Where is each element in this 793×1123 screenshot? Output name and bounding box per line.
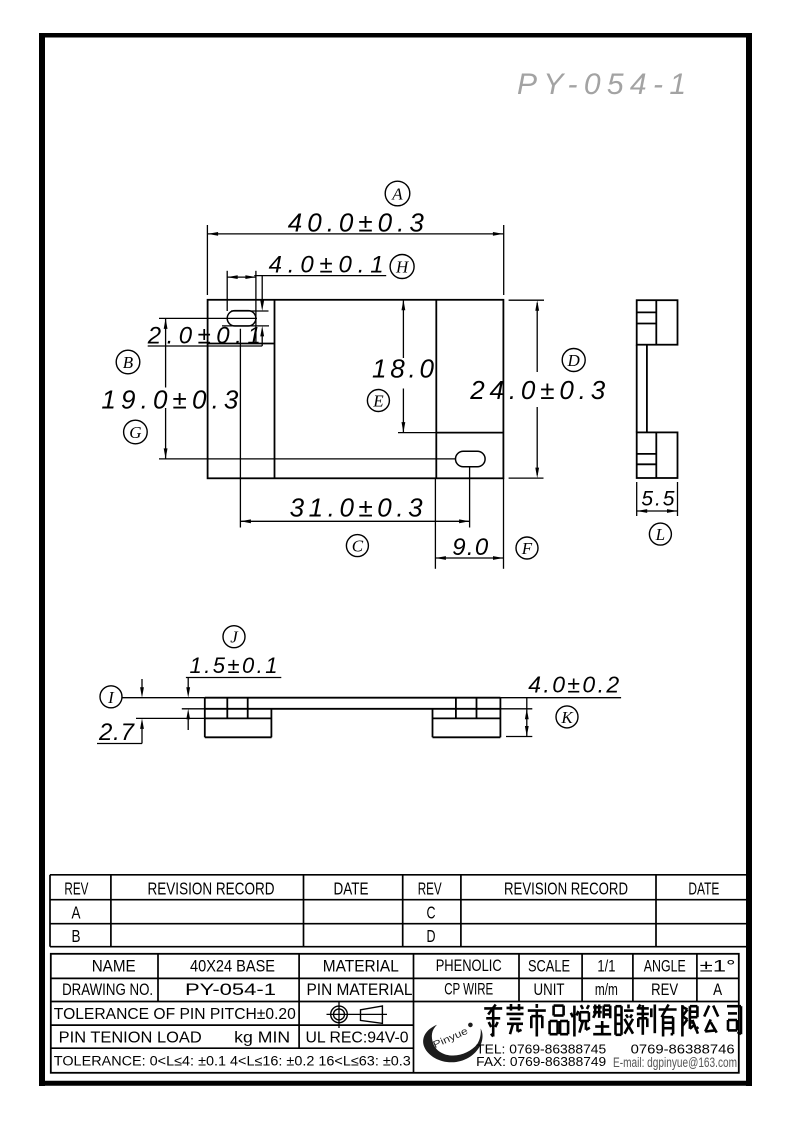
svg-text:TOLERANCE OF PIN PITCH±0.20: TOLERANCE OF PIN PITCH±0.20: [54, 1006, 296, 1023]
svg-text:UL REC:94V-0: UL REC:94V-0: [306, 1029, 409, 1046]
svg-text:9.0: 9.0: [452, 534, 489, 561]
svg-text:B: B: [72, 926, 81, 946]
svg-text:1/1: 1/1: [597, 957, 615, 975]
svg-text:±1°: ±1°: [700, 957, 736, 975]
svg-text:C: C: [352, 537, 364, 556]
svg-text:DATE: DATE: [334, 878, 369, 898]
svg-text:TOLERANCE: 0<L≤4: ±0.1 4<L≤: TOLERANCE: 0<L≤4: ±0.1 4<L≤16: ±0.2 16<L…: [54, 1054, 411, 1069]
svg-text:B: B: [123, 353, 134, 372]
svg-text:SCALE: SCALE: [528, 957, 570, 975]
svg-text:PIN TENION LOAD: PIN TENION LOAD: [59, 1029, 202, 1046]
svg-text:L: L: [655, 525, 665, 544]
svg-text:A: A: [391, 185, 403, 204]
svg-text:PIN MATERIAL: PIN MATERIAL: [307, 981, 413, 999]
svg-text:PY-054-1: PY-054-1: [517, 68, 688, 101]
svg-text:REVISION RECORD: REVISION RECORD: [148, 878, 275, 898]
svg-text:kg MIN: kg MIN: [234, 1029, 290, 1046]
svg-text:FAX: 0769-86388749: FAX: 0769-86388749: [476, 1054, 606, 1069]
svg-text:PHENOLIC: PHENOLIC: [436, 957, 502, 975]
svg-text:K: K: [560, 708, 574, 727]
svg-text:NAME: NAME: [92, 957, 136, 975]
svg-text:REV: REV: [418, 878, 442, 898]
svg-text:G: G: [129, 423, 141, 442]
svg-text:REV: REV: [64, 878, 88, 898]
svg-text:D: D: [567, 351, 581, 370]
svg-text:UNIT: UNIT: [534, 981, 565, 999]
svg-text:5.5: 5.5: [641, 488, 674, 511]
svg-text:DATE: DATE: [688, 878, 719, 898]
svg-text:MATERIAL: MATERIAL: [323, 957, 399, 975]
svg-text:A: A: [72, 902, 81, 922]
svg-text:A: A: [713, 981, 722, 999]
svg-text:REVISION RECORD: REVISION RECORD: [504, 878, 628, 898]
svg-text:C: C: [427, 902, 436, 922]
svg-text:PY-054-1: PY-054-1: [185, 981, 276, 999]
svg-text:ANGLE: ANGLE: [644, 957, 686, 975]
svg-text:40X24 BASE: 40X24 BASE: [190, 957, 275, 975]
svg-text:m/m: m/m: [595, 981, 618, 999]
svg-text:DRAWING NO.: DRAWING NO.: [62, 981, 153, 999]
svg-text:D: D: [427, 926, 436, 946]
svg-text:E: E: [372, 392, 384, 411]
svg-text:18.0: 18.0: [372, 353, 435, 383]
svg-text:REV: REV: [651, 981, 678, 999]
svg-text:E-mail: dgpinyue@163.com: E-mail: dgpinyue@163.com: [613, 1055, 737, 1070]
svg-text:H: H: [395, 258, 410, 277]
svg-text:2.7: 2.7: [98, 719, 136, 746]
svg-text:CP WIRE: CP WIRE: [444, 981, 493, 999]
svg-text:F: F: [521, 539, 533, 558]
